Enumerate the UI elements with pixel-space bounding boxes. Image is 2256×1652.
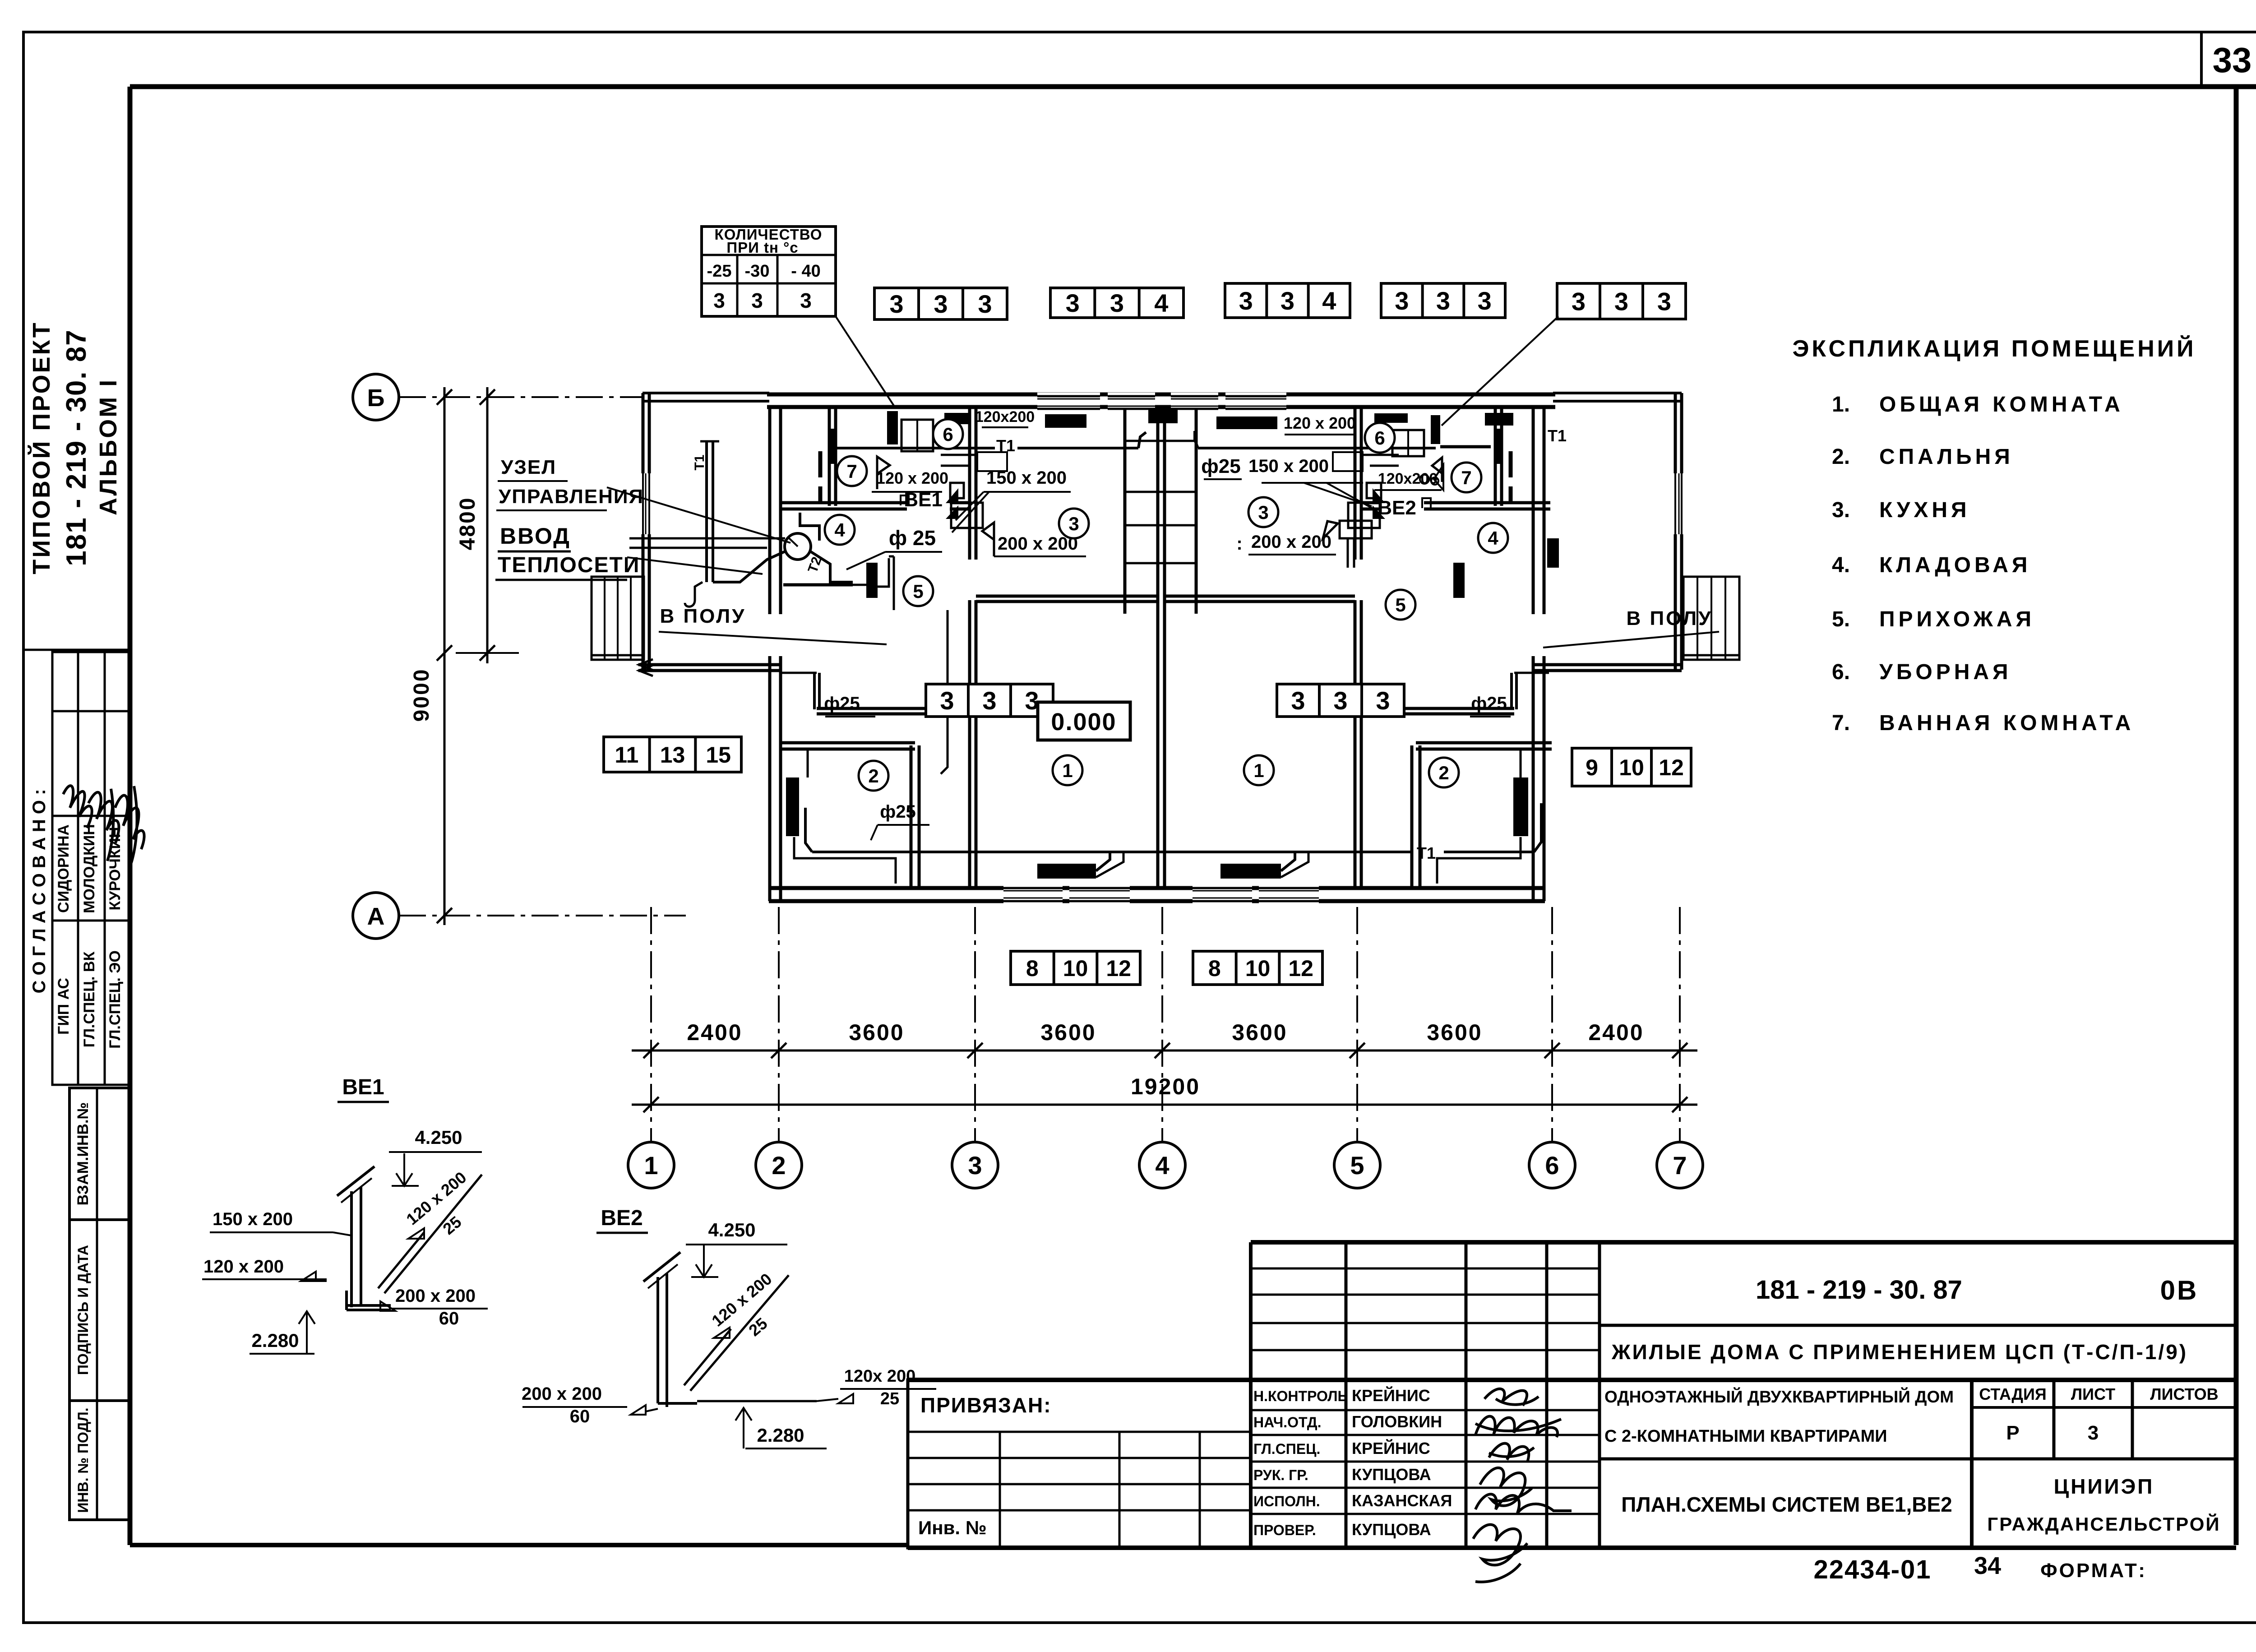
toilet fixtures left [901,420,933,451]
duct lines VE1 zone [941,452,1007,471]
bath bottom wall left [781,503,970,509]
svg-text:ф25: ф25 [1471,694,1507,713]
label 150x200 left [952,468,1071,532]
pipe hall left [853,556,894,610]
svg-text:ВЕ1: ВЕ1 [904,489,943,511]
bath stack left [828,429,836,464]
radiator bottom right pipes [1281,852,1308,877]
table 8 10 12 left [1011,951,1140,985]
BE1 duct bottom [347,1291,391,1310]
svg-text::: : [1236,534,1242,554]
svg-text:6: 6 [1374,427,1385,449]
title s 2-komnatnymi [1604,1427,1887,1446]
value R [2006,1422,2019,1444]
left entrance stairs [592,577,644,660]
inner frame right edge [2234,87,2239,1545]
svg-text:19200: 19200 [1131,1074,1200,1099]
note 22434-01 [1813,1555,1931,1584]
svg-text:4: 4 [1488,528,1498,549]
svg-text:2400: 2400 [1588,1020,1644,1045]
BE1 label 200x200-60 [380,1286,488,1328]
radiator top right mid [1374,413,1408,423]
radiator top left small [944,413,969,424]
radiator top right small [1485,413,1513,426]
svg-text:3: 3 [1436,287,1450,315]
svg-text:3: 3 [1258,502,1268,523]
doc mark OV [2160,1275,2199,1305]
stair shaft wall left [1123,409,1127,614]
svg-text:34: 34 [1974,1552,2001,1579]
header list [2071,1385,2115,1403]
svg-text:ФОРМАТ:: ФОРМАТ: [2040,1559,2147,1582]
riser room2 left [786,777,799,836]
svg-text:СИДОРИНА: СИДОРИНА [55,824,72,913]
svg-text:150 х 200: 150 х 200 [986,468,1067,488]
svg-text:СПАЛЬНЯ: СПАЛЬНЯ [1879,445,2014,469]
BE1 label 150x200 [210,1209,351,1236]
bath left wall [829,409,836,506]
svg-text:4800: 4800 [456,497,480,551]
svg-text:ГИП АС: ГИП АС [55,978,72,1035]
left wall window [640,473,653,534]
svg-text:15: 15 [706,742,731,768]
axis2 wall upper [770,409,781,614]
svg-text:КУПЦОВА: КУПЦОВА [1352,1465,1431,1484]
svg-text:Инв. №: Инв. № [918,1517,987,1538]
BE2 mark 2.280 [735,1408,827,1448]
svg-text:КУПЦОВА: КУПЦОВА [1352,1520,1431,1539]
corridor stub wall left [782,673,819,709]
BE1 title [337,1075,389,1102]
hall wall left [817,708,973,714]
svg-text:3: 3 [934,290,948,318]
left exterior wall [643,393,649,670]
note 34 [1974,1552,2001,1579]
svg-text:ф 25: ф 25 [889,526,936,550]
svg-text:120 х 200: 120 х 200 [1284,414,1356,432]
riser room2 left pipes [794,749,896,884]
axis line B horizontal [399,396,643,398]
axis vertical lines 1-7 [651,907,1680,1142]
svg-text:Т1: Т1 [1548,426,1567,445]
svg-text:5: 5 [1395,594,1405,615]
axis6 wall upper [1533,409,1544,614]
value 3 [2088,1422,2099,1444]
label T1 bottom [1417,844,1436,862]
svg-text:10: 10 [1063,956,1088,981]
svg-text:3: 3 [1478,287,1492,315]
svg-text:3: 3 [1066,289,1080,317]
heating main T1 bottom [805,803,1541,852]
risers T1 T2 left [700,441,719,582]
label phi25 room2b left [871,802,929,840]
toilet bowls right [1420,475,1438,485]
label v polu left [659,605,887,644]
svg-text:3: 3 [1281,287,1294,315]
svg-text:1: 1 [1062,760,1073,781]
svg-text:3: 3 [1376,686,1390,715]
approval signatures [63,786,144,863]
heating main T1 top left [835,432,1146,448]
bath bottom wall right [1361,503,1550,509]
svg-text:- 40: - 40 [791,262,820,281]
svg-text:200 х 200: 200 х 200 [522,1384,602,1404]
table 9 10 12 [1572,748,1691,786]
BE1 label 120x200-25 [402,1168,470,1239]
svg-text:ВАННАЯ КОМНАТА: ВАННАЯ КОМНАТА [1879,711,2134,735]
riser room2 right [1513,777,1528,836]
table kolichestvo pri tn [702,226,836,316]
svg-text:1: 1 [1253,760,1264,781]
riser room2 right pipes [1437,749,1521,884]
svg-text:ЦНИИЭП: ЦНИИЭП [2054,1475,2154,1498]
svg-text:4: 4 [1322,287,1336,315]
axis5 wall [1355,409,1361,888]
radiator top right [1216,416,1277,429]
svg-text:3: 3 [968,1151,982,1180]
flag 200x200 right [1323,521,1338,538]
svg-text:А: А [367,903,385,930]
wall room2-room1 left [911,745,919,888]
header listov [2150,1385,2218,1403]
svg-text:10: 10 [1245,956,1271,981]
approval row GIP AS [55,978,72,1035]
hall wall right [1358,708,1514,714]
svg-text:УБОРНАЯ: УБОРНАЯ [1879,660,2012,684]
center party wall [1158,409,1165,888]
svg-text:ВЕ2: ВЕ2 [601,1206,643,1230]
top exterior wall [643,393,1682,407]
flag room7 right [1432,458,1442,482]
label T1 top right [1548,426,1567,445]
BE2 mark 4.250 [686,1219,787,1277]
svg-text:120х200: 120х200 [1378,470,1438,487]
duct lines VE2 zone [1333,452,1399,471]
right wall window [1672,473,1685,534]
svg-text:НАЧ.ОТД.: НАЧ.ОТД. [1253,1414,1321,1430]
vent block center [1148,408,1178,423]
corridor stub wall right [1512,673,1549,709]
svg-text:6: 6 [943,424,953,445]
svg-text:10: 10 [1619,755,1644,780]
stair shaft ladder rungs [1125,441,1196,563]
svg-text:КАЗАНСКАЯ: КАЗАНСКАЯ [1352,1491,1452,1510]
BE2 label 120x200-25 right [817,1367,936,1408]
inner frame top edge [130,84,2256,89]
approval row Gl.spec.VK [81,952,98,1048]
side box Inv.No podl. [69,1401,129,1520]
dimension line row1 [632,1043,1697,1058]
svg-text:1: 1 [644,1151,658,1180]
svg-text:3600: 3600 [1040,1020,1096,1045]
svg-text:13: 13 [660,742,685,768]
svg-text:3600: 3600 [1427,1020,1482,1045]
svg-text:ВЗАМ.ИНВ.№: ВЗАМ.ИНВ.№ [74,1102,92,1206]
BE1 duct vertical [337,1166,374,1307]
svg-text:12: 12 [1106,956,1131,981]
mid table 333 left [926,684,1053,717]
approval name Kurochkin [106,827,124,910]
explication list [1832,393,2134,735]
approval table grid [52,652,130,1085]
bottom exterior wall [769,888,1545,901]
svg-text:5.: 5. [1832,607,1850,631]
approval name Sidorina [55,824,72,913]
title odnoetazhny [1604,1387,1954,1406]
svg-text:Б: Б [367,384,385,412]
right entrance stairs [1683,577,1739,660]
kitchen bottom wall right [1165,596,1355,602]
label 200x200 right [1236,532,1336,555]
flag room7 left [877,457,890,489]
room number circles [825,419,1508,791]
svg-text:-30: -30 [745,262,770,281]
svg-text:ГЛ.СПЕЦ. ВК: ГЛ.СПЕЦ. ВК [81,952,98,1048]
svg-text:КУХНЯ: КУХНЯ [1879,498,1970,522]
label phi25 room2 left [824,694,875,717]
label vvod teploseti [495,523,640,580]
label 120x200 topright [1284,414,1356,435]
svg-text:9: 9 [1586,755,1598,780]
svg-text:В ПОЛУ: В ПОЛУ [660,605,746,627]
axis circle A [353,893,399,939]
svg-text:КУРОЧКИН: КУРОЧКИН [106,827,124,910]
svg-text:3: 3 [1110,289,1124,317]
mid table 333 right [1277,684,1404,717]
svg-text:4: 4 [1155,1151,1169,1180]
label Privyazan [920,1393,1052,1417]
label phi25 kitchen right [1201,455,1242,479]
svg-text:Т1: Т1 [1417,844,1436,862]
svg-text:2: 2 [868,765,878,787]
label 120x200 room7 left [872,469,948,492]
side box Podpis i data [69,1220,129,1401]
svg-text:25: 25 [880,1389,899,1408]
vertical dim line 9000 [437,387,452,925]
svg-text:ГОЛОВКИН: ГОЛОВКИН [1352,1412,1442,1431]
BE2 duct bottom [658,1400,817,1407]
heating main T1 top right [1195,431,1491,448]
table 8 10 12 right [1193,951,1322,985]
radiator top left [1045,414,1086,428]
title plan shemy [1621,1493,1952,1516]
svg-text:4.: 4. [1832,553,1850,577]
svg-text:4.250: 4.250 [708,1219,755,1240]
vertical dim line 4800 [456,387,519,663]
header stadiya [1979,1385,2047,1403]
svg-text:8: 8 [1208,956,1221,981]
svg-text:ЛИСТ: ЛИСТ [2071,1385,2115,1403]
svg-text:ЭКСПЛИКАЦИЯ ПОМЕЩЕНИЙ: ЭКСПЛИКАЦИЯ ПОМЕЩЕНИЙ [1792,335,2196,362]
dim text 4800 [456,497,480,551]
axis2 wall lower [770,656,781,901]
svg-text:ОДНОЭТАЖНЫЙ ДВУХКВАРТИРНЫЙ ДОМ: ОДНОЭТАЖНЫЙ ДВУХКВАРТИРНЫЙ ДОМ [1604,1387,1954,1406]
top table 334 b [1050,288,1183,318]
note format [2040,1559,2147,1582]
label T1 riser [692,454,707,470]
svg-text:9000: 9000 [410,668,434,722]
label SOGLASOVANO [29,789,49,994]
label Vzam.inv.No [74,1102,92,1206]
svg-text:КРЕЙНИС: КРЕЙНИС [1352,1386,1430,1405]
label T1 top left [996,436,1015,455]
svg-text:ЖИЛЫЕ ДОМА С ПРИМЕНЕНИЕМ ЦСП (: ЖИЛЫЕ ДОМА С ПРИМЕНЕНИЕМ ЦСП (Т-С/П-1/9) [1611,1340,2188,1364]
svg-text:ф25: ф25 [824,694,860,713]
left strip divider under stamp [23,649,130,651]
top table 333 a [874,288,1007,319]
svg-text:181 - 219 - 30. 87: 181 - 219 - 30. 87 [61,329,92,566]
pipe phi25 vertical left [941,610,948,774]
svg-text:3: 3 [2088,1422,2099,1444]
approval name Molodkin [81,824,98,913]
stamp text Albom I [95,378,122,515]
svg-text:КРЕЙНИС: КРЕЙНИС [1352,1439,1430,1458]
stamp text 181-219-30.87 [61,329,92,566]
pipe vvod teploseti [629,538,785,548]
svg-text:ПРОВЕР.: ПРОВЕР. [1253,1522,1316,1538]
svg-text:ОБЩАЯ КОМНАТА: ОБЩАЯ КОМНАТА [1879,393,2124,416]
title block signature grid [908,1242,2236,1548]
svg-text:181 - 219 - 30. 87: 181 - 219 - 30. 87 [1756,1275,1962,1305]
svg-text:11: 11 [615,742,638,768]
svg-text:2.: 2. [1832,445,1850,469]
svg-text:7: 7 [1673,1151,1687,1180]
side box Vzam.inv.No [69,1088,129,1220]
top table 333 d [1381,283,1505,318]
riser dashes right [1509,451,1513,502]
label 120x200 room7 right [1374,465,1443,490]
BE2 title [596,1206,648,1233]
svg-text:ПОДПИСЬ И ДАТА: ПОДПИСЬ И ДАТА [75,1245,91,1375]
svg-text:150 х 200: 150 х 200 [213,1209,293,1229]
svg-text:С 2-КОМНАТНЫМИ КВАРТИРАМИ: С 2-КОМНАТНЫМИ КВАРТИРАМИ [1604,1427,1887,1446]
explication title [1792,335,2196,362]
right exterior wall [1675,393,1682,670]
room2 top wall right [1416,743,1552,749]
svg-text:ВЕ1: ВЕ1 [342,1075,384,1099]
dim text 9000 [410,668,434,722]
svg-text:3: 3 [940,686,954,715]
label phi25 room2 right [1470,694,1511,717]
title block names [1253,1386,1452,1539]
svg-text:2: 2 [772,1151,786,1180]
label 120x200 topleft [975,408,1035,427]
svg-text:3600: 3600 [849,1020,904,1045]
svg-text:3: 3 [978,290,992,318]
svg-text:ТЕПЛОСЕТИ: ТЕПЛОСЕТИ [498,553,640,577]
svg-text:3: 3 [889,290,903,318]
axis line A horizontal [399,915,686,916]
riser hall right [1453,563,1465,598]
bottom wall windows [1003,884,1319,905]
org TSNIIEP [2054,1475,2154,1498]
svg-text:120 х 200: 120 х 200 [876,469,948,487]
dimension 19200 [1131,1074,1200,1099]
svg-text:0.000: 0.000 [1051,708,1116,736]
svg-text:3.: 3. [1832,498,1850,522]
radiator bottom left pipes [1096,852,1123,877]
BE1 mark 2.280 [250,1311,315,1354]
svg-text:6: 6 [1545,1151,1559,1180]
bath stack right [1494,429,1502,464]
svg-text:ПРИ tн °с: ПРИ tн °с [726,239,798,256]
left wing bottom wall [638,659,781,676]
kitchen bottom wall left [976,596,1158,602]
vent stack toilet right [1431,415,1440,444]
BE1 diagonal duct [378,1175,482,1293]
svg-text:ЛИСТОВ: ЛИСТОВ [2150,1385,2218,1403]
svg-text:0В: 0В [2160,1275,2199,1305]
svg-text:3: 3 [1395,287,1409,315]
bath right wall [1495,409,1502,506]
room2 top wall left [779,743,915,749]
svg-text:60: 60 [570,1407,590,1426]
leader from kolichestvo table [836,316,896,408]
svg-text:5: 5 [913,581,923,602]
wall room2-room1 right [1412,745,1420,888]
svg-text:КЛАДОВАЯ: КЛАДОВАЯ [1879,553,2031,577]
svg-text:3: 3 [1333,686,1347,715]
BE2 label 120x200-25 [708,1269,775,1340]
label Podpis i data [75,1245,91,1375]
radiator bottom left [1037,864,1096,879]
svg-text:6.: 6. [1832,660,1850,684]
svg-text:3: 3 [713,289,725,312]
label Inv.No podl. [75,1407,91,1513]
sheet number box [2200,32,2203,87]
svg-text:3: 3 [982,686,996,715]
svg-text:ф25: ф25 [880,802,916,822]
org grazhdanselstroy [1987,1513,2220,1535]
svg-text:3: 3 [1291,686,1305,715]
svg-text:3: 3 [1239,287,1253,315]
radiator storeroom right [1547,538,1559,568]
vent duct block left [946,483,983,528]
svg-text:33: 33 [2213,40,2252,80]
svg-text:ВВОД: ВВОД [500,523,571,549]
svg-text:ПРИХОЖАЯ: ПРИХОЖАЯ [1879,607,2035,631]
label phi25 kitchen left [846,526,942,569]
svg-text:1.: 1. [1832,393,1850,416]
label T2 at uzel [805,555,825,575]
svg-text:ГЛ.СПЕЦ. ЭО: ГЛ.СПЕЦ. ЭО [106,950,124,1049]
svg-text:4: 4 [1154,289,1168,317]
riser dashes left [818,451,823,502]
svg-text:Р: Р [2006,1422,2019,1444]
title block left attach box [908,1380,1251,1548]
svg-text:5: 5 [1350,1151,1364,1180]
svg-text:7.: 7. [1832,711,1850,735]
label 150x200 right [1248,456,1375,510]
svg-text:8: 8 [1026,956,1039,981]
inner frame left edge [128,87,133,1545]
vent stack toilet left [887,411,898,444]
BE1 mark 4.250 [389,1127,482,1186]
label Inv.No [918,1517,987,1538]
svg-text:4: 4 [834,519,845,541]
label v polu right [1543,607,1719,648]
svg-text:ГЛ.СПЕЦ.: ГЛ.СПЕЦ. [1253,1441,1320,1457]
duct stack center right [1340,521,1372,568]
svg-text:ПЛАН.СХЕМЫ СИСТЕМ ВЕ1,ВЕ2: ПЛАН.СХЕМЫ СИСТЕМ ВЕ1,ВЕ2 [1621,1493,1952,1516]
toilet fixtures right [1392,430,1424,456]
BE2 label 200x200-60 [522,1384,658,1426]
top table 333 e [1557,283,1686,319]
axis6 wall lower [1533,656,1544,901]
svg-text:Т1: Т1 [692,454,707,470]
axis circle B [353,374,399,420]
flag 200x200 left [982,523,994,556]
